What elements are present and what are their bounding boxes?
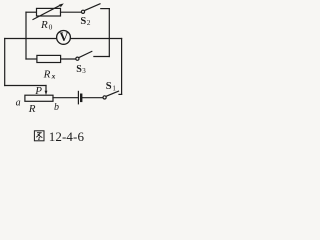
wire Rx row from node X <box>26 58 37 60</box>
wire S2 to top-right corner <box>101 8 110 10</box>
wire R0 to S2 <box>61 11 82 13</box>
svg-text:12-4-6: 12-4-6 <box>49 129 85 144</box>
switch S1 contact circle <box>103 96 106 99</box>
svg-text:0: 0 <box>49 23 53 32</box>
switch S3 lever <box>79 51 92 57</box>
wire potentiometer b to battery <box>53 97 78 99</box>
battery short plate <box>80 95 82 101</box>
svg-text:V: V <box>59 30 68 44</box>
voltmeter V circle <box>57 31 71 45</box>
switch S2 contact circle <box>81 10 84 13</box>
wire right outer vertical <box>121 39 123 95</box>
wire S3 to node Y vertical <box>94 56 109 58</box>
wire voltmeter row left <box>5 38 57 40</box>
wire voltmeter row right <box>70 38 121 40</box>
wire left outer vertical <box>4 39 6 86</box>
caption glyph 图 <box>34 131 44 141</box>
potentiometer R body <box>25 95 53 101</box>
wire right mid vertical (node Y) <box>108 9 110 57</box>
svg-text:b: b <box>54 102 59 113</box>
svg-text:1: 1 <box>112 85 116 93</box>
resistor Rx body <box>37 55 61 62</box>
svg-text:3: 3 <box>82 67 86 75</box>
svg-text:x: x <box>51 71 56 80</box>
svg-text:2: 2 <box>87 18 91 27</box>
rheostat R0 arrow <box>33 5 62 20</box>
wire battery to S1 <box>82 97 103 99</box>
switch S3 contact circle <box>76 57 79 60</box>
wire S1 to right outer vertical <box>119 93 122 95</box>
svg-text:S: S <box>106 81 112 92</box>
switch S2 lever <box>84 4 100 11</box>
potentiometer slider P arrow <box>45 86 47 92</box>
svg-text:R: R <box>43 68 51 80</box>
svg-text:a: a <box>16 97 21 108</box>
switch S1 lever <box>106 91 119 96</box>
svg-text:S: S <box>80 16 86 27</box>
wire bottom-left horizontal to slider <box>5 85 46 87</box>
wire top-left node vertical (node X) <box>25 12 27 59</box>
svg-text:R: R <box>40 19 48 31</box>
battery long plate <box>77 91 79 103</box>
svg-text:P: P <box>34 85 42 97</box>
wire top-left horizontal into R0 <box>26 11 37 13</box>
svg-text:R: R <box>28 103 36 115</box>
wire Rx to S3 <box>61 58 76 60</box>
resistor R0 body <box>37 8 61 16</box>
